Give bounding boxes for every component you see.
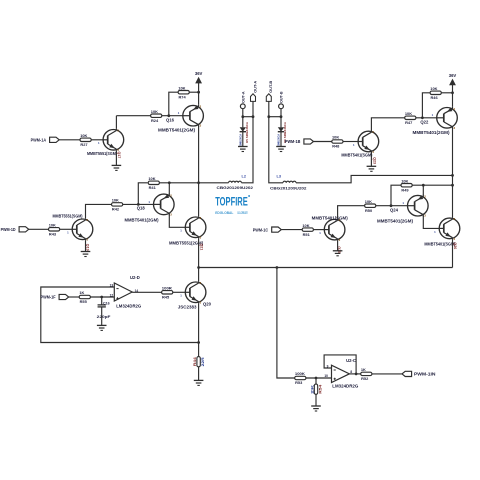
wire Q23 emitter to ground [370,153,372,167]
wire C16 stem [101,297,103,305]
wire Q22 collector down rail [452,128,454,217]
wire R46 to 36V rail [441,92,452,94]
wire Q21 emitter down to node [198,238,200,281]
svg-text:Q17: Q17 [117,152,121,159]
svg-text:1K: 1K [361,367,366,372]
transistor Q25 MMBT5401 [324,219,345,240]
svg-text:L2: L2 [242,174,246,178]
wire R50 to Q24 base [376,205,408,207]
wire Q17 collector up [115,116,117,129]
resistor R55 1K [79,295,90,298]
svg-text:CBG201209U202: CBG201209U202 [270,186,307,191]
resistor R53 100K [295,376,306,379]
resistor R50 10K [365,204,376,207]
svg-text:220pF: 220pF [97,314,111,319]
diode D5 TVS [240,127,246,131]
wire Q18 collector to Q21 base [169,215,185,228]
node C16 junction [100,296,103,299]
svg-text:R48: R48 [332,144,340,149]
svg-text:10K: 10K [148,176,155,181]
node output-A rail junction [197,181,200,184]
svg-text:R44: R44 [193,357,197,366]
wire U2-C feedback loop [349,373,356,375]
svg-text:MMBT5401(SGM): MMBT5401(SGM) [341,153,373,158]
ground Q17 [112,164,122,166]
wire Q24 collector to Q26 base [423,216,439,228]
svg-text:10K: 10K [332,135,339,140]
resistor R74 10K [178,91,189,94]
ground D6 [276,146,286,148]
svg-text:R74: R74 [179,94,187,99]
resistor R46 10K [430,91,441,94]
svg-text:R45: R45 [162,295,170,300]
op-amp U2-C LM324DR2G [332,365,350,382]
svg-text:10K: 10K [151,109,158,114]
svg-text:SMBJ36CA: SMBJ36CA [277,134,281,146]
inductor L3 CBG201209U202 [283,181,296,183]
svg-text:36V: 36V [195,71,203,76]
svg-text:R27: R27 [80,142,87,147]
wire R45 to Q20 base [173,291,186,293]
transistor Q26 MMBT5401 [439,218,460,239]
wire PWM-1D to R43 [29,228,49,230]
op-amp U2-D LM324DR2G [114,283,132,301]
transistor Q23 MMBT5401 [358,131,379,152]
power 36V left [198,83,200,105]
svg-text:10K: 10K [302,223,309,228]
wire R55 to U2-D pin12 [91,296,115,298]
wire R52 to PWM-1IN port [372,373,402,375]
resistor R44 22R vertical [197,357,200,367]
svg-text:Q22: Q22 [420,120,429,125]
svg-text:10K: 10K [80,133,87,138]
wire R49 left lead [391,185,401,206]
transistor Q18 MMBT5401 [154,194,175,215]
svg-text:10K: 10K [178,85,185,90]
svg-text:U2-C: U2-C [346,358,356,363]
resistor R42 10K [112,203,123,206]
wire OUT-B connector stem [269,101,283,182]
node R49 lead junction [390,204,393,207]
wire bus tap to U2-C [277,268,295,379]
connector OUT-A [251,94,256,102]
testpoint OUT-B [279,104,284,109]
svg-text:Q26: Q26 [453,242,457,249]
wire R41 row to rail [160,182,199,184]
svg-text:TOPFIRE: TOPFIRE [215,195,248,209]
svg-text:10K: 10K [112,198,119,203]
resistor R54 2K vertical [314,384,317,394]
transistor Q17 MMBT5551 [103,130,124,151]
transistor Q21 MMBT5551 [185,217,206,238]
port PWM-1B [304,139,314,144]
wire PWM-1B to R48 [314,141,332,143]
ground C16 [97,324,107,326]
wire D6 to ground [280,132,282,147]
wire L2 to OUT-A connector [242,101,254,182]
svg-text:PWM-1C: PWM-1C [253,227,269,232]
transistor Q22 MMBT5401 [437,108,458,129]
resistor R24 10K [151,114,162,117]
wire testpoint OUT-A stem [242,109,244,127]
node R46 junction [421,116,424,119]
svg-text:10K: 10K [430,86,437,91]
svg-text:10K: 10K [405,111,412,116]
port PWM-1C [272,227,282,232]
wire Q18 emitter up [168,183,170,194]
ground R44 [194,379,204,381]
node R54 junction [315,377,318,380]
wire R54 to ground [315,394,317,406]
wire tie OUT-A testpoint [243,116,253,118]
wire R53 to U2-C pin10 [306,377,332,379]
svg-text:PWM-1B: PWM-1B [285,139,301,144]
wire R54 stem [315,378,317,384]
ground R54 [311,405,321,407]
svg-text:D5 SMBJ36CA: D5 SMBJ36CA [245,122,249,143]
svg-text:CO-CREATE: CO-CREATE [237,211,248,215]
node R74 junction [167,114,170,117]
node Q18 emitter junction [168,181,171,184]
wire R48 to Q23 base [343,141,358,143]
wire PWM-1C to R51 [281,229,302,231]
resistor R45 100R [162,291,173,294]
wire U2-D output to R45 [132,291,161,293]
svg-text:1K: 1K [79,290,84,295]
wire Q24 emitter up [422,185,424,195]
wire testpoint OUT-B stem [280,109,282,127]
wire Q23 collector up to R47 [371,118,404,131]
wire Q20 emitter down [198,303,200,356]
resistor R48 10K [332,140,343,143]
resistor R49 10K [401,184,412,187]
svg-text:R50: R50 [365,208,372,213]
svg-text:12: 12 [110,294,114,298]
svg-text:MMBT5401(SGM): MMBT5401(SGM) [424,241,456,246]
wire Q16 collector down rail [198,126,200,216]
transistor Q16 MMBT5401 [183,105,204,126]
svg-text:C16: C16 [103,302,110,306]
node R41 junction [137,203,140,206]
wire D5 to ground [242,132,244,147]
svg-text:36V: 36V [449,73,457,78]
wire Q17 emitter to ground [115,151,117,166]
wire C16 to ground [101,307,103,326]
svg-text:MMBT5401(SGM): MMBT5401(SGM) [312,216,349,221]
wire R43 to Q19 base [60,228,73,230]
wire R46 left lead [422,93,429,118]
wire U2-D feedback loop [41,287,199,343]
wire Q26 emitter down to bus [452,239,454,267]
wire R74 left lead [169,92,178,116]
svg-text:13: 13 [110,284,114,288]
wire Q19 collector up to R42 [86,204,112,218]
wire R51 to Q25 base [314,229,325,231]
wire R74 to 36V rail [189,91,198,93]
resistor R47 10K [405,116,416,119]
svg-text:R52: R52 [361,376,369,381]
port PWM-1IN [402,371,412,376]
svg-text:CBG201209U202: CBG201209U202 [217,185,254,190]
ground Q19 [81,251,91,253]
svg-text:OUT-A: OUT-A [241,91,245,103]
svg-text:Q19: Q19 [86,244,90,251]
resistor R51 10K [302,228,313,231]
resistor R43 10K [49,228,60,231]
wire R49 row to rail [412,184,452,186]
svg-text:10K: 10K [365,199,372,204]
wire R24 to Q16 base [162,115,183,117]
svg-text:Q18: Q18 [137,205,146,210]
svg-text:22R: 22R [201,357,205,367]
svg-text:Q24: Q24 [390,208,399,213]
wire Q17 collector row to R24 [116,115,150,117]
svg-text:Q16: Q16 [166,118,175,123]
port PWM-1A [50,137,60,142]
transistor Q24 MMBT5401 [408,195,429,216]
svg-text:U2-D: U2-D [130,275,140,280]
ground Q25 [333,250,343,252]
resistor R52 1K [361,372,372,375]
svg-text:10K: 10K [401,178,408,183]
svg-text:100K: 100K [295,371,305,376]
node R49 rail junction [451,184,454,187]
svg-text:R53: R53 [295,380,303,385]
wire PWM-1F to R55 [69,296,79,298]
wire R27 to Q17 base [91,139,103,141]
capacitor C16 220pF [98,304,106,306]
svg-text:Q23: Q23 [372,157,376,164]
svg-text:MMBT5551(SGM): MMBT5551(SGM) [87,151,118,156]
svg-text:JSC2383: JSC2383 [178,305,197,310]
svg-text:2K: 2K [310,384,314,394]
wire R42 to Q18 base [123,203,154,205]
svg-text:R54: R54 [319,385,323,394]
svg-text:PWM-1IN: PWM-1IN [414,372,436,377]
resistor R27 10K [80,138,91,141]
wire Q25 emitter to ground [337,241,339,251]
svg-text:EDGLOBAL: EDGLOBAL [215,211,233,215]
wire Q19 emitter to ground [85,240,87,251]
port PWM-1F [59,294,69,299]
wire U2-C output to R52 [356,373,361,375]
svg-text:R51: R51 [303,232,311,237]
wire output-A row to L2 [199,182,229,184]
node Q24 emitter junction [422,184,425,187]
svg-text:Q21: Q21 [200,244,204,251]
svg-text:OUT-B: OUT-B [268,81,273,93]
svg-text:MMBT5401(2GM): MMBT5401(2GM) [413,130,451,135]
svg-text:PWM-1F: PWM-1F [41,295,56,300]
svg-text:MMBT5401(2GM): MMBT5401(2GM) [377,219,414,224]
wire tie OUT-B testpoint [269,116,281,118]
wire R47 to Q22 base [416,117,437,119]
svg-text:10K: 10K [49,223,56,228]
diode D6 TVS [278,127,284,131]
svg-text:R42: R42 [112,207,120,212]
port PWM-1D [19,227,29,232]
svg-text:Q20: Q20 [203,302,212,307]
svg-text:R49: R49 [401,187,409,192]
wire Q25 collector up to R50 [338,206,365,219]
inductor L2 CBG201209U202 [229,181,242,183]
resistor R41 10K [148,181,159,184]
svg-text:R24: R24 [151,118,159,123]
svg-text:R46: R46 [431,95,439,100]
wire R44 to ground [198,367,200,381]
svg-text:MMBT5401(2GM): MMBT5401(2GM) [158,128,196,133]
transistor Q20 JSC2383 [185,282,206,303]
svg-text:OUT-B: OUT-B [280,91,284,103]
svg-text:LM324DR2G: LM324DR2G [116,303,142,308]
svg-text:OUT-A: OUT-A [252,81,257,93]
wire R41 left lead [138,183,147,205]
ground D5 [238,146,248,148]
ground Q23 [367,165,377,167]
svg-text:10: 10 [324,374,328,378]
svg-text:R43: R43 [49,232,57,237]
node mid rail junction [197,266,200,269]
svg-text:MMBT5551(SGM): MMBT5551(SGM) [53,214,84,219]
svg-text:100R: 100R [162,286,172,291]
svg-text:R47: R47 [405,120,412,125]
svg-text:PWM-1A: PWM-1A [31,138,47,143]
connector OUT-B [266,94,271,102]
transistor Q19 MMBT5551 [72,219,93,240]
wire PWM-1A to R27 [59,139,80,141]
svg-text:L3: L3 [277,174,281,178]
svg-text:R41: R41 [149,185,157,190]
svg-text:PWM-1D: PWM-1D [1,227,17,232]
svg-text:LM324DR2G: LM324DR2G [332,383,359,388]
svg-text:SMBJ36CA: SMBJ36CA [238,134,242,146]
svg-text:8: 8 [350,370,352,374]
svg-text:R55: R55 [80,299,88,304]
testpoint OUT-A [240,104,245,109]
wire L3 to right rail [296,175,453,182]
power 36V right [452,85,454,107]
svg-text:MMBT5401(2GM): MMBT5401(2GM) [125,218,160,223]
wire mid horizontal bus [199,267,453,269]
